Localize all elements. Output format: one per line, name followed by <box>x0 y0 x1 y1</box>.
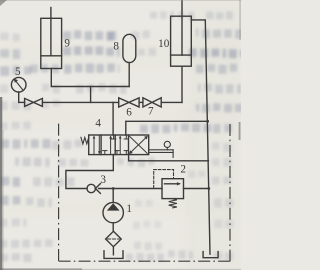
svg-text:7: 7 <box>148 105 154 117</box>
svg-text:10: 10 <box>158 38 170 50</box>
svg-text:3: 3 <box>100 174 106 186</box>
svg-text:5: 5 <box>15 66 21 78</box>
svg-text:1: 1 <box>126 203 132 215</box>
svg-text:2: 2 <box>180 164 186 176</box>
svg-text:8: 8 <box>113 41 119 53</box>
svg-text:4: 4 <box>95 118 101 130</box>
svg-text:9: 9 <box>64 38 70 50</box>
svg-text:6: 6 <box>126 106 132 118</box>
